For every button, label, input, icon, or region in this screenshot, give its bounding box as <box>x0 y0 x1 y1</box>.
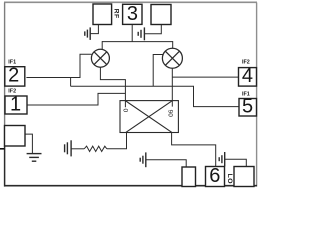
border frame bottom <box>4 185 257 187</box>
wire RF bus <box>102 41 173 43</box>
wire pad to ground G1 <box>90 25 98 34</box>
svg-text:LO: LO <box>226 174 233 184</box>
wire resistor to ground lead <box>71 148 84 150</box>
resistor R1 termination <box>84 146 107 151</box>
svg-text:4: 4 <box>242 65 253 87</box>
svg-text:90: 90 <box>166 110 173 118</box>
svg-text:IF2: IF2 <box>8 88 16 94</box>
wire hybrid isolated port to resistor <box>107 133 127 149</box>
ground G1 sideways top-left <box>85 27 90 40</box>
wire RF riser to mixer M1 <box>101 41 103 49</box>
ground G6 below case pin <box>27 154 42 162</box>
wire mixer M2 left port drop to IF1 run <box>153 55 163 87</box>
ground G3 sideways bottom-middle <box>140 152 146 167</box>
svg-text:IF1: IF1 <box>8 59 16 65</box>
svg-text:5: 5 <box>242 96 253 118</box>
pad box 4 <box>239 68 257 87</box>
ground G4 sideways bottom-right <box>219 152 225 166</box>
pad box 6 LO <box>206 167 225 187</box>
wire IF2 to pin 4 <box>172 76 238 78</box>
wire case pin to ground G6 <box>25 134 32 154</box>
pad box top-right <box>151 5 171 25</box>
border frame right <box>256 3 258 187</box>
svg-text:6: 6 <box>209 165 220 187</box>
pad box 3 RF <box>123 4 142 24</box>
svg-text:2: 2 <box>8 65 19 87</box>
border frame left lower <box>4 146 6 187</box>
wire IF1 long run <box>71 86 239 106</box>
svg-text:1: 1 <box>10 93 21 115</box>
wire IF1 branch drop <box>70 78 72 87</box>
wire pad to ground G4 <box>225 159 247 166</box>
wire pad to ground G3 <box>146 160 186 167</box>
border frame top <box>4 1 257 3</box>
pad box bottom-middle <box>182 167 196 187</box>
registration tick bottom-left <box>0 148 5 150</box>
pad box 2 <box>5 67 25 86</box>
svg-text:RF: RF <box>113 9 120 19</box>
wire RF riser to mixer M2 <box>172 41 174 48</box>
pad box case pin left <box>5 126 26 147</box>
ground G2 sideways top-middle <box>138 27 144 40</box>
mixer M1 <box>91 49 109 67</box>
pad box 1 <box>5 96 27 114</box>
border frame left upper <box>4 3 6 147</box>
svg-text:IF1: IF1 <box>242 91 250 97</box>
wire IF1 from pin 2 <box>26 54 91 77</box>
wire mixer M2 IF port to hybrid <box>171 68 173 106</box>
wire pad to ground G2 <box>144 25 161 34</box>
ground G5 sideways at resistor <box>65 140 72 156</box>
wire RF lead from pin 3 <box>131 24 133 41</box>
svg-text:3: 3 <box>127 3 138 25</box>
svg-text:0: 0 <box>121 108 128 112</box>
svg-text:IF2: IF2 <box>242 59 250 65</box>
hybrid coupler U1 <box>120 101 178 133</box>
pad box 5 <box>239 99 257 117</box>
wire LO from hybrid to pin 6 <box>172 133 216 167</box>
wire IF2 from pin 1 <box>27 93 125 105</box>
pad box bottom-right <box>234 167 254 187</box>
wire mixer M1 IF port to hybrid <box>100 67 125 107</box>
mixer M2 <box>162 48 182 68</box>
pad box top-left <box>93 4 112 25</box>
